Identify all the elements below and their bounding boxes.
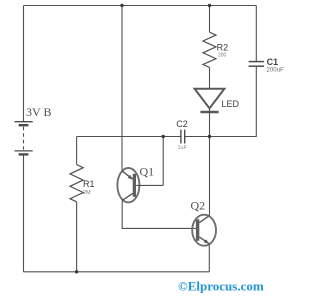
svg-text:C2: C2 xyxy=(176,119,188,129)
svg-text:2M: 2M xyxy=(83,190,91,196)
svg-text:Q2: Q2 xyxy=(191,198,206,212)
svg-text:C1: C1 xyxy=(267,57,279,67)
svg-text:Q1: Q1 xyxy=(140,165,155,179)
svg-text:1uF: 1uF xyxy=(178,145,188,151)
svg-text:R1: R1 xyxy=(83,179,95,189)
svg-text:200: 200 xyxy=(218,53,227,59)
svg-text:R2: R2 xyxy=(217,43,229,53)
svg-text:©Elprocus.com: ©Elprocus.com xyxy=(178,278,264,293)
svg-text:LED: LED xyxy=(222,99,240,109)
svg-text:200uF: 200uF xyxy=(266,67,284,74)
svg-text:3V B: 3V B xyxy=(26,105,51,119)
